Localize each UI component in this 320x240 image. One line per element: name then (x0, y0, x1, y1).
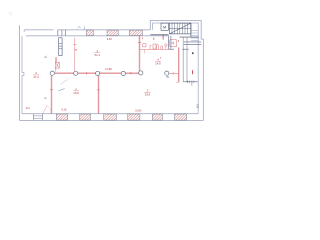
svg-text:1эт: 1эт (26, 106, 31, 110)
red partition horizontal y49.4 (140, 48, 169, 50)
red X-box near shaft (55, 57, 59, 71)
stair bay outer top (150, 21, 201, 40)
svg-text:6,5: 6,5 (196, 104, 200, 108)
room label 2/47.3 (33, 71, 39, 79)
red dim line x74.8 (73, 38, 76, 71)
hatched block top wall 3 (130, 30, 143, 35)
red dot (160, 57, 161, 58)
svg-text:5,: 5, (44, 55, 48, 58)
red horizontal partition y73.3 (54, 72, 139, 75)
bottom wall hatch E (152, 114, 162, 120)
inner wall right (197, 23, 199, 114)
inner wall left with pilaster notch (22, 36, 24, 114)
room label 4/61.2 (95, 49, 101, 57)
shaft (59, 38, 62, 56)
faint stamp smudge top-left (9, 12, 13, 16)
svg-text:8,18: 8,18 (62, 108, 67, 111)
corridor walls right (182, 37, 184, 82)
inner wall top (26, 35, 150, 37)
outer wall left (19, 25, 21, 120)
bathroom right wall (168, 36, 170, 49)
wall y82 with ticks (183, 81, 198, 86)
bottom wall hatch D (128, 114, 140, 120)
red partition x178.6 (177, 48, 180, 83)
red tick at 192.5,72 (192, 70, 194, 74)
gray dot (166, 76, 169, 78)
hatched block top wall 2 (107, 30, 118, 35)
door leaf bottom-left (red) (43, 105, 47, 113)
blue pen mark (59, 89, 65, 91)
red mark near 178,41 (178, 40, 179, 42)
stair bay lower wall lines (184, 41, 201, 43)
bottom wall hatch C (104, 114, 117, 120)
M box (lift) (161, 23, 168, 30)
svg-text:61,2: 61,2 (95, 53, 101, 57)
bottom wall hatch A (56, 114, 67, 120)
red cabin partition x163.3 and red dashes (162, 34, 164, 39)
column circles (50, 71, 169, 76)
bottom wall hatch F (175, 114, 187, 120)
faint pink diagonal near x100 (100, 71, 103, 74)
faint blue door swing (61, 80, 68, 85)
svg-text:9,92: 9,92 (107, 37, 113, 41)
tiny gray marks above wall (78, 26, 81, 28)
svg-text:10,80: 10,80 (135, 109, 142, 112)
room label 3/29.6 (144, 89, 150, 97)
room label 1/16.8 (73, 87, 79, 95)
dark square glyph (192, 52, 193, 54)
staircase upper flight (170, 23, 191, 34)
svg-text:M: M (163, 25, 166, 29)
hatched block top wall 1 (86, 30, 93, 35)
svg-text:29,6: 29,6 (145, 93, 151, 97)
red partition vertical x51.5 (50, 73, 53, 113)
outer wall bottom (20, 119, 204, 121)
stair bay inner top (153, 23, 199, 30)
red line circle5 to partition (169, 72, 178, 75)
bottom wall window box left (33, 114, 42, 121)
svg-text:47,3: 47,3 (33, 75, 39, 79)
svg-text:11,98: 11,98 (105, 67, 112, 71)
svg-text:14,8: 14,8 (155, 62, 161, 66)
stair return flight treads (191, 31, 198, 41)
inner wall bottom (22, 113, 198, 115)
bottom wall hatch B (80, 114, 91, 120)
stair landing wall (190, 23, 192, 37)
red partition vertical x139.5 (138, 36, 142, 71)
red box fixture (143, 44, 146, 47)
outer wall right with step (201, 39, 203, 120)
window mullions top wall (57, 30, 59, 36)
svg-text:16,8: 16,8 (73, 91, 79, 95)
red partition vertical x98.5 (97, 74, 100, 114)
bathroom fixtures red (150, 40, 177, 49)
outer wall top with window gap (24, 29, 53, 31)
room label 4/14.8 (155, 58, 161, 66)
